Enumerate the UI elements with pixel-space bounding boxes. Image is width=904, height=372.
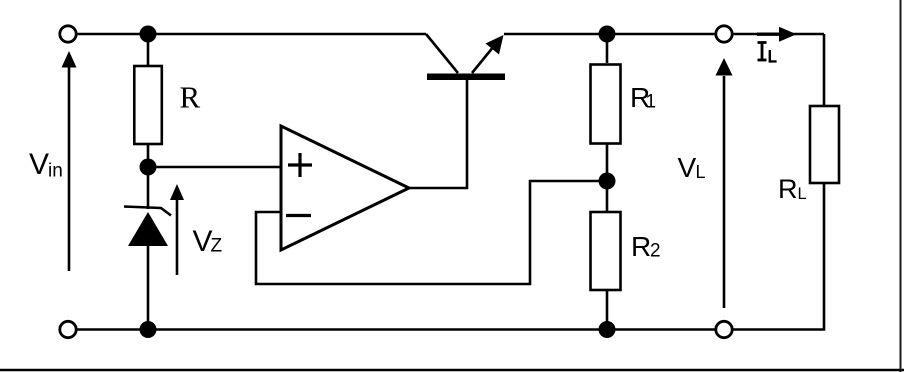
svg-text:1: 1 (646, 92, 657, 113)
svg-text:2: 2 (650, 241, 661, 262)
svg-text:L: L (798, 185, 807, 203)
svg-text:R: R (778, 174, 798, 204)
svg-text:R: R (180, 80, 201, 115)
svg-text:L: L (696, 162, 706, 182)
svg-text:R: R (631, 231, 651, 262)
svg-text:Z: Z (211, 236, 223, 257)
svg-text:V: V (29, 148, 49, 181)
svg-text:V: V (678, 152, 697, 183)
svg-text:V: V (193, 225, 213, 258)
svg-text:in: in (48, 161, 63, 182)
